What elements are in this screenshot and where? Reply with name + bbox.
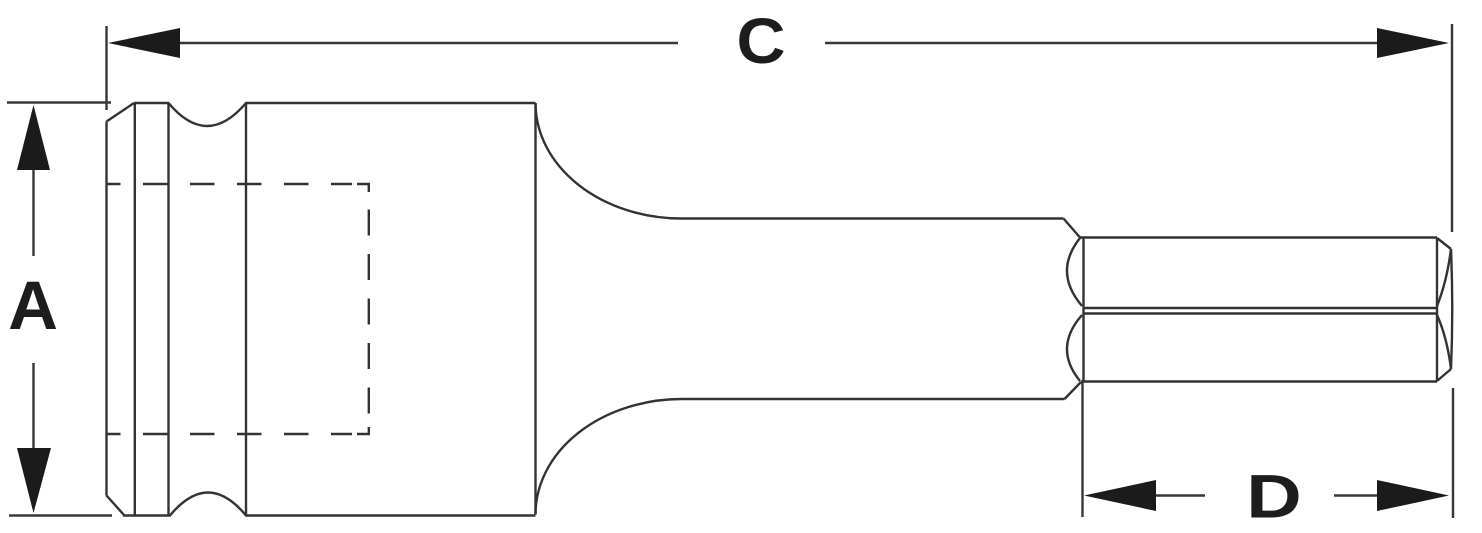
shoulder fillet top <box>536 103 682 219</box>
hex bit tip facet diagonal lower <box>1437 315 1451 369</box>
arrowhead C left <box>108 28 180 58</box>
dimension A line upper segment <box>32 168 34 256</box>
dimension C extension line left <box>105 26 107 110</box>
socket top-left chamfer <box>107 103 135 122</box>
hex bit tip end edge <box>1451 249 1452 369</box>
square drive dashed top <box>107 183 353 185</box>
socket right face <box>534 103 536 515</box>
dimension D line right segment <box>1334 494 1380 496</box>
dimension C extension line right <box>1451 24 1453 232</box>
hex bit tip chamfer top <box>1437 238 1451 249</box>
socket top edge with groove dip <box>134 103 536 126</box>
dimension A extension line top <box>7 101 111 103</box>
socket bottom-left chamfer <box>107 496 125 516</box>
arrowhead D right <box>1377 480 1449 511</box>
svg-text:C: C <box>737 5 786 77</box>
shoulder fillet bottom <box>536 399 683 515</box>
dimension A line lower segment <box>32 363 34 450</box>
socket left face <box>105 122 107 496</box>
socket bottom edge with groove hump <box>123 493 536 516</box>
socket collar ring line 1 <box>134 103 136 516</box>
dimension D extension line left <box>1081 382 1083 517</box>
shaft bottom chamfer <box>1065 382 1082 399</box>
square drive dashed corner hook top-right <box>357 184 369 192</box>
square drive dashed bottom <box>107 433 353 435</box>
groove boundary line <box>245 103 247 516</box>
arrowhead D left <box>1084 480 1156 511</box>
hex bit tip facet diagonal upper <box>1437 249 1451 306</box>
square drive dashed corner hook bottom-right <box>357 427 369 434</box>
arrowhead C right <box>1377 28 1449 58</box>
arrowhead A up <box>17 105 50 170</box>
dimension C line left segment <box>176 42 678 44</box>
hex bit middle facet line upper <box>1084 307 1438 309</box>
dimension C line right segment <box>825 42 1381 44</box>
hex bit middle facet line lower <box>1084 312 1438 314</box>
dimension D line left segment <box>1152 494 1205 496</box>
hex bit left edge <box>1082 238 1084 382</box>
shaft top chamfer <box>1064 219 1081 238</box>
shaft top edge <box>682 217 1064 219</box>
svg-text:A: A <box>8 267 58 344</box>
dimension D extension line right <box>1452 388 1454 518</box>
socket collar ring line 2 <box>167 103 169 516</box>
shaft bottom edge <box>682 398 1065 400</box>
hex bit tip inner line <box>1436 238 1438 381</box>
dimension A extension line bottom <box>9 514 112 516</box>
hex bit tip chamfer bottom <box>1437 369 1451 381</box>
arrowhead A down <box>17 448 51 513</box>
svg-text:D: D <box>1246 462 1302 531</box>
hex bit top edge <box>1080 236 1437 238</box>
hex bit bottom edge <box>1081 380 1437 382</box>
hex bit upper-left corner arc <box>1067 238 1082 306</box>
hex bit lower-left corner arc <box>1067 315 1082 381</box>
square drive dashed right <box>368 210 370 415</box>
